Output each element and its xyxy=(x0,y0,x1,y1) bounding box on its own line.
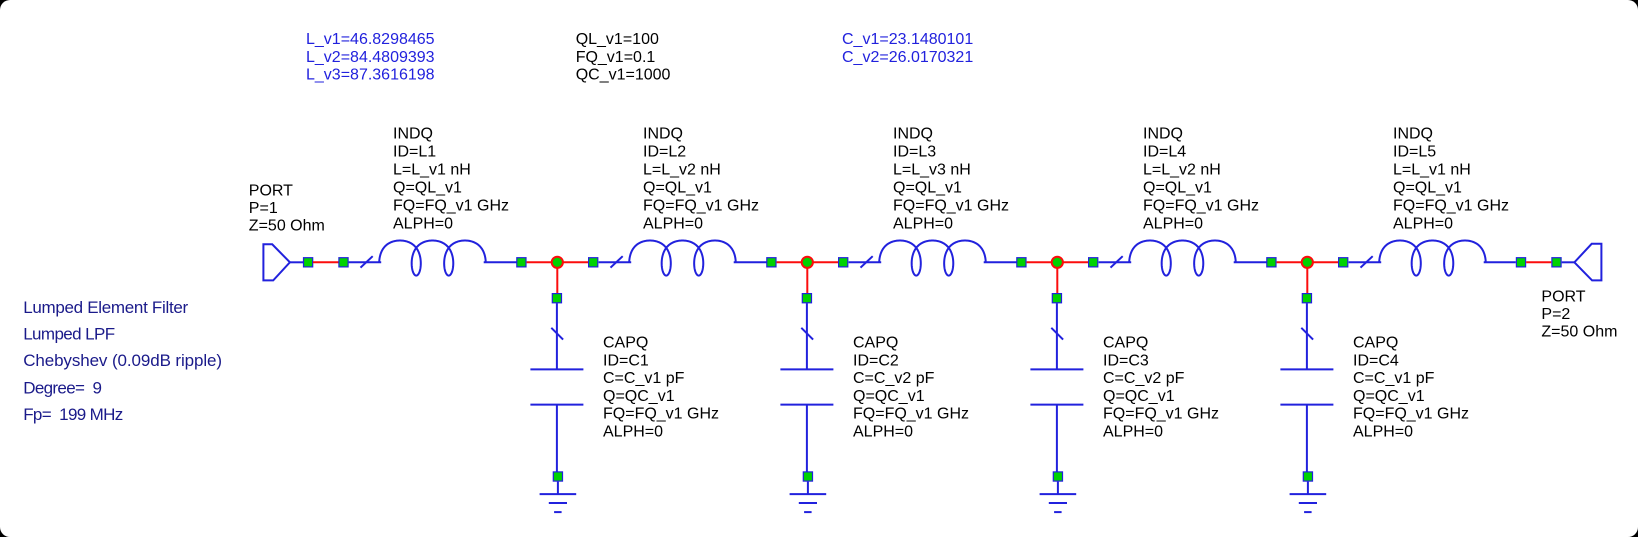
svg-text:FQ=FQ_v1 GHz: FQ=FQ_v1 GHz xyxy=(1103,406,1219,423)
svg-text:C=C_v1 pF: C=C_v1 pF xyxy=(603,370,685,387)
svg-text:ID=C3: ID=C3 xyxy=(1103,352,1149,369)
svg-text:Q=QC_v1: Q=QC_v1 xyxy=(853,388,925,405)
svg-text:ALPH=0: ALPH=0 xyxy=(393,216,453,233)
svg-text:Q=QC_v1: Q=QC_v1 xyxy=(603,388,675,405)
svg-text:ID=C2: ID=C2 xyxy=(853,352,899,369)
svg-text:ALPH=0: ALPH=0 xyxy=(1353,423,1413,440)
svg-text:FQ=FQ_v1 GHz: FQ=FQ_v1 GHz xyxy=(853,406,969,423)
svg-text:PORT: PORT xyxy=(249,183,293,200)
svg-text:P=1: P=1 xyxy=(249,200,278,217)
svg-text:Degree= 9: Degree= 9 xyxy=(23,379,101,398)
svg-text:ALPH=0: ALPH=0 xyxy=(1143,216,1203,233)
svg-text:C_v1=23.1480101: C_v1=23.1480101 xyxy=(842,31,973,48)
svg-text:Q=QL_v1: Q=QL_v1 xyxy=(893,180,962,197)
svg-text:Q=QC_v1: Q=QC_v1 xyxy=(1353,388,1425,405)
svg-text:L=L_v2 nH: L=L_v2 nH xyxy=(643,162,721,179)
svg-text:INDQ: INDQ xyxy=(1143,126,1183,143)
svg-text:FQ=FQ_v1 GHz: FQ=FQ_v1 GHz xyxy=(393,198,509,215)
svg-text:CAPQ: CAPQ xyxy=(603,335,648,352)
svg-text:ALPH=0: ALPH=0 xyxy=(893,216,953,233)
svg-text:L_v3=87.3616198: L_v3=87.3616198 xyxy=(306,67,435,84)
svg-text:L_v1=46.8298465: L_v1=46.8298465 xyxy=(306,31,435,48)
svg-text:FQ=FQ_v1 GHz: FQ=FQ_v1 GHz xyxy=(1393,198,1509,215)
svg-text:C=C_v2 pF: C=C_v2 pF xyxy=(1103,370,1185,387)
svg-text:ID=L4: ID=L4 xyxy=(1143,144,1186,161)
svg-text:FQ=FQ_v1 GHz: FQ=FQ_v1 GHz xyxy=(643,198,759,215)
svg-text:Q=QC_v1: Q=QC_v1 xyxy=(1103,388,1175,405)
svg-text:Z=50 Ohm: Z=50 Ohm xyxy=(1541,324,1617,341)
svg-text:C=C_v2 pF: C=C_v2 pF xyxy=(853,370,935,387)
svg-text:Fp= 199 MHz: Fp= 199 MHz xyxy=(23,405,123,424)
svg-text:L=L_v3 nH: L=L_v3 nH xyxy=(893,162,971,179)
svg-text:Q=QL_v1: Q=QL_v1 xyxy=(1393,180,1462,197)
svg-text:CAPQ: CAPQ xyxy=(853,335,898,352)
svg-text:Lumped LPF: Lumped LPF xyxy=(23,325,115,344)
svg-text:ID=C4: ID=C4 xyxy=(1353,352,1399,369)
svg-text:ALPH=0: ALPH=0 xyxy=(643,216,703,233)
svg-text:CAPQ: CAPQ xyxy=(1353,335,1398,352)
svg-text:Q=QL_v1: Q=QL_v1 xyxy=(1143,180,1212,197)
svg-text:PORT: PORT xyxy=(1541,289,1585,306)
svg-text:INDQ: INDQ xyxy=(393,126,433,143)
svg-text:L=L_v1 nH: L=L_v1 nH xyxy=(1393,162,1471,179)
svg-text:L_v2=84.4809393: L_v2=84.4809393 xyxy=(306,49,435,66)
svg-text:Chebyshev (0.09dB ripple): Chebyshev (0.09dB ripple) xyxy=(23,351,222,370)
svg-text:FQ=FQ_v1 GHz: FQ=FQ_v1 GHz xyxy=(1143,198,1259,215)
svg-text:ID=L2: ID=L2 xyxy=(643,144,686,161)
svg-text:INDQ: INDQ xyxy=(643,126,683,143)
svg-text:Q=QL_v1: Q=QL_v1 xyxy=(643,180,712,197)
svg-text:INDQ: INDQ xyxy=(893,126,933,143)
svg-text:FQ=FQ_v1 GHz: FQ=FQ_v1 GHz xyxy=(893,198,1009,215)
svg-text:FQ=FQ_v1 GHz: FQ=FQ_v1 GHz xyxy=(1353,406,1469,423)
svg-text:QC_v1=1000: QC_v1=1000 xyxy=(576,67,671,84)
svg-text:ALPH=0: ALPH=0 xyxy=(1393,216,1453,233)
svg-text:ALPH=0: ALPH=0 xyxy=(853,423,913,440)
svg-text:P=2: P=2 xyxy=(1541,306,1570,323)
svg-text:Z=50 Ohm: Z=50 Ohm xyxy=(249,218,325,235)
svg-text:C=C_v1 pF: C=C_v1 pF xyxy=(1353,370,1435,387)
svg-text:ID=C1: ID=C1 xyxy=(603,352,649,369)
svg-text:ALPH=0: ALPH=0 xyxy=(1103,423,1163,440)
svg-text:ID=L3: ID=L3 xyxy=(893,144,936,161)
svg-text:FQ_v1=0.1: FQ_v1=0.1 xyxy=(576,49,656,66)
svg-text:ID=L5: ID=L5 xyxy=(1393,144,1436,161)
svg-text:L=L_v1 nH: L=L_v1 nH xyxy=(393,162,471,179)
svg-text:ID=L1: ID=L1 xyxy=(393,144,436,161)
svg-text:ALPH=0: ALPH=0 xyxy=(603,423,663,440)
svg-text:QL_v1=100: QL_v1=100 xyxy=(576,31,659,48)
svg-text:L=L_v2 nH: L=L_v2 nH xyxy=(1143,162,1221,179)
svg-text:FQ=FQ_v1 GHz: FQ=FQ_v1 GHz xyxy=(603,406,719,423)
svg-text:Q=QL_v1: Q=QL_v1 xyxy=(393,180,462,197)
svg-text:C_v2=26.0170321: C_v2=26.0170321 xyxy=(842,49,973,66)
svg-text:Lumped Element Filter: Lumped Element Filter xyxy=(23,298,188,317)
svg-text:INDQ: INDQ xyxy=(1393,126,1433,143)
svg-text:CAPQ: CAPQ xyxy=(1103,335,1148,352)
